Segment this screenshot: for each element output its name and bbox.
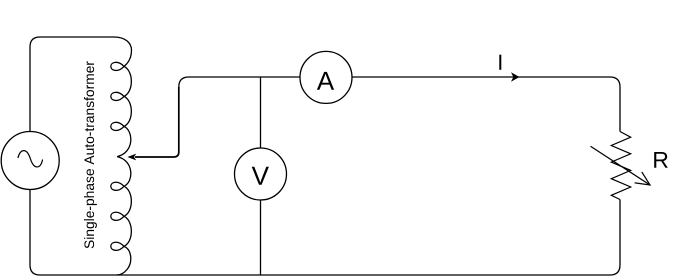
wire: resistor bottom to bottom-right corner [610, 200, 620, 276]
voltmeter V [235, 148, 287, 200]
wire: voltmeter drop bottom [260, 200, 262, 275]
resistor R (rheostat zigzag) [611, 132, 630, 200]
tap arrow (wiper) [127, 87, 178, 160]
wire: top rail right segment with corner down to resistor [352, 77, 620, 132]
ammeter A [300, 51, 352, 103]
wire: voltmeter drop top [260, 77, 262, 148]
current arrowhead on top rail [511, 72, 520, 81]
label I [499, 55, 501, 70]
label: Single-phase Auto-transformer [84, 61, 97, 248]
label R [654, 152, 668, 168]
rheostat arrow [591, 146, 651, 185]
AC source V1 [1, 132, 59, 190]
auto-transformer winding T1 [111, 37, 132, 275]
wire: top rail left segment (tap corner to ammeter) [179, 77, 300, 87]
wire: source top to transformer top [30, 37, 114, 132]
wire: source bottom to bottom rail [30, 190, 610, 276]
